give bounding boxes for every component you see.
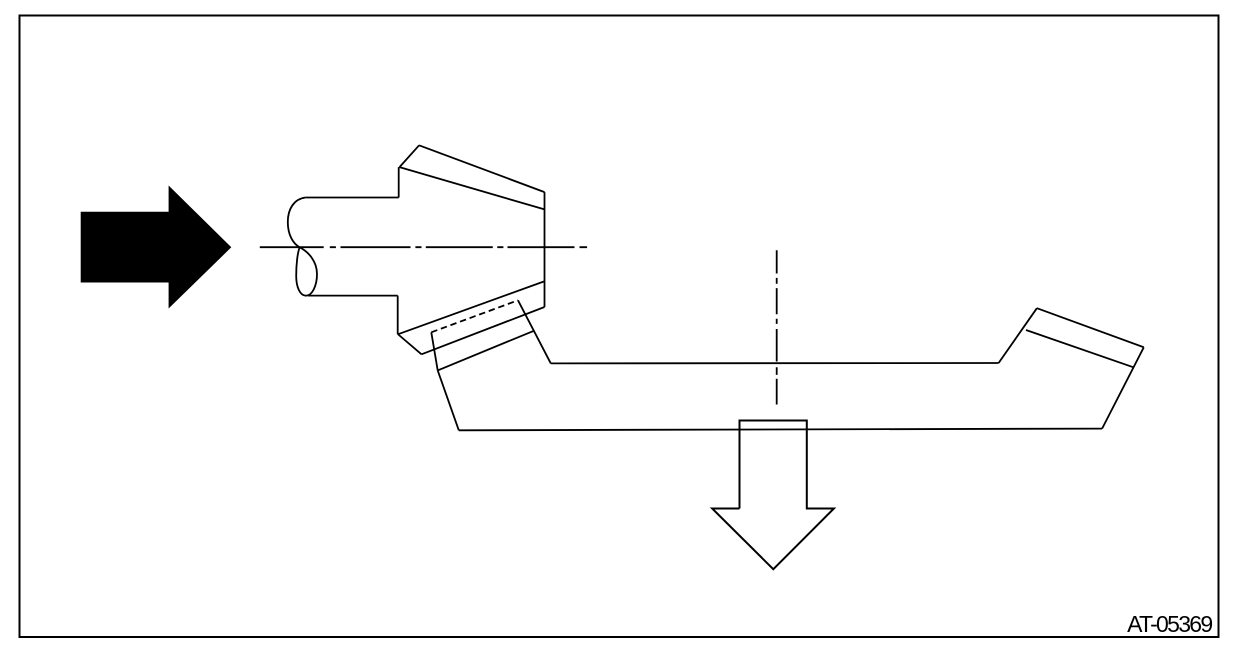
svg-text:AT-05369: AT-05369 [1127, 611, 1212, 637]
